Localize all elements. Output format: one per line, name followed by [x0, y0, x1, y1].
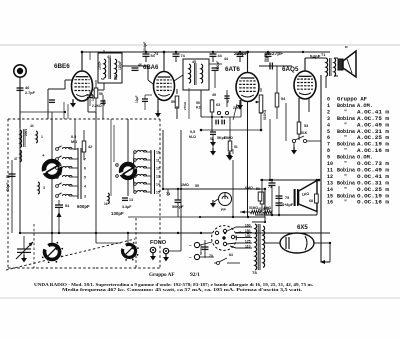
- svg-text:3.3μF: 3.3μF: [122, 205, 132, 209]
- svg-text:O.OM.: O.OM.: [357, 155, 373, 161]
- svg-text:T8: T8: [252, 270, 257, 275]
- svg-text:6AT6: 6AT6: [225, 66, 240, 73]
- svg-text:O.OC.41 m: O.OC.41 m: [357, 174, 389, 180]
- svg-text:14: 14: [156, 183, 160, 187]
- svg-text:51MΩ: 51MΩ: [249, 206, 258, 210]
- svg-text:140: 140: [245, 234, 251, 238]
- svg-text:49: 49: [212, 93, 216, 97]
- svg-text:MΩ: MΩ: [71, 140, 77, 144]
- svg-text:56: 56: [256, 187, 260, 191]
- svg-text:5000pF: 5000pF: [199, 244, 203, 255]
- svg-text:A.OM.: A.OM.: [357, 103, 373, 109]
- svg-text:6: 6: [84, 167, 86, 171]
- svg-text:11: 11: [327, 167, 333, 173]
- svg-text:13: 13: [327, 180, 333, 186]
- svg-text:13: 13: [129, 198, 133, 202]
- svg-text:+: +: [42, 153, 45, 158]
- svg-text:2.2KΩ: 2.2KΩ: [92, 104, 102, 108]
- svg-text:400pF: 400pF: [6, 183, 10, 192]
- svg-text:110: 110: [245, 244, 251, 248]
- svg-text:Bobina: Bobina: [337, 142, 355, 148]
- svg-text:600pF: 600pF: [77, 204, 90, 209]
- svg-text:43: 43: [107, 55, 111, 59]
- svg-text:O.OC.49 m: O.OC.49 m: [357, 167, 389, 173]
- svg-text:6MΩ: 6MΩ: [245, 186, 253, 190]
- svg-text:": ": [344, 187, 347, 193]
- svg-text:54: 54: [114, 77, 118, 81]
- svg-text:400pF: 400pF: [216, 61, 220, 70]
- svg-text:1MΩ: 1MΩ: [181, 183, 189, 187]
- svg-text:Bobina: Bobina: [337, 155, 355, 161]
- svg-text:11: 11: [156, 159, 160, 163]
- svg-text:50: 50: [196, 101, 200, 105]
- svg-text:6: 6: [327, 135, 330, 141]
- svg-text:A.OC.41 m: A.OC.41 m: [357, 109, 389, 115]
- svg-text:50: 50: [226, 99, 230, 103]
- svg-text:9: 9: [327, 155, 330, 161]
- svg-text:53: 53: [304, 124, 308, 128]
- svg-text:A.OC.75 m: A.OC.75 m: [357, 116, 389, 122]
- svg-text:47: 47: [14, 157, 18, 161]
- svg-text:Bobina: Bobina: [337, 167, 355, 173]
- svg-text:10: 10: [327, 161, 333, 167]
- svg-text:Bobina: Bobina: [337, 129, 355, 135]
- svg-text:55: 55: [195, 184, 199, 188]
- svg-text:5: 5: [327, 129, 330, 135]
- svg-text:55: 55: [6, 175, 10, 179]
- svg-text:74: 74: [268, 185, 272, 189]
- svg-text:Bobina: Bobina: [337, 103, 355, 109]
- svg-text:8: 8: [327, 148, 330, 154]
- svg-text:51: 51: [234, 145, 238, 149]
- svg-text:22KΩ: 22KΩ: [233, 106, 242, 110]
- svg-text:27KΩ: 27KΩ: [183, 101, 187, 110]
- svg-text:4: 4: [327, 122, 330, 128]
- svg-text:125: 125: [245, 239, 251, 243]
- svg-text:10: 10: [156, 151, 160, 155]
- svg-text:120pF: 120pF: [118, 61, 122, 70]
- svg-text:160: 160: [245, 223, 251, 227]
- svg-text:130pF: 130pF: [111, 211, 124, 216]
- svg-text:A.OC.31 m: A.OC.31 m: [357, 129, 389, 135]
- svg-text:16: 16: [104, 202, 108, 206]
- svg-text:1: 1: [327, 103, 330, 109]
- svg-text:13: 13: [156, 175, 160, 179]
- svg-text:50KpF: 50KpF: [172, 205, 184, 209]
- svg-text:": ": [344, 122, 347, 128]
- svg-text:50pF: 50pF: [264, 54, 268, 62]
- svg-text:84: 84: [229, 253, 233, 257]
- svg-text:510KΩ: 510KΩ: [263, 109, 267, 120]
- svg-text:A.OC.49 m: A.OC.49 m: [357, 122, 389, 128]
- svg-text:12: 12: [156, 167, 160, 171]
- svg-text:0,5: 0,5: [190, 130, 195, 134]
- svg-text:M-Ω: M-Ω: [189, 135, 196, 139]
- svg-text:46: 46: [25, 86, 29, 90]
- svg-text:3: 3: [84, 195, 86, 199]
- svg-text:7: 7: [327, 142, 330, 148]
- svg-text:53: 53: [101, 77, 105, 81]
- svg-text:6BA6: 6BA6: [143, 65, 159, 71]
- svg-text:": ": [344, 200, 347, 206]
- svg-text:75: 75: [285, 196, 289, 200]
- svg-text:T1: T1: [321, 53, 325, 57]
- svg-text:0.5: 0.5: [71, 135, 76, 139]
- svg-text:6BE6: 6BE6: [54, 63, 70, 70]
- svg-text:6X5: 6X5: [297, 225, 308, 231]
- svg-text:4: 4: [84, 185, 86, 189]
- svg-text:2: 2: [327, 109, 330, 115]
- svg-text:16: 16: [327, 200, 333, 206]
- svg-text:59: 59: [171, 100, 175, 104]
- svg-text:": ": [344, 161, 347, 167]
- svg-text:O.OC.73 m: O.OC.73 m: [357, 161, 389, 167]
- svg-text:Gruppo AF: Gruppo AF: [149, 272, 175, 278]
- svg-text:63: 63: [216, 103, 220, 107]
- svg-text:45: 45: [192, 60, 196, 64]
- svg-text:68: 68: [309, 199, 313, 203]
- svg-text:O.OC.31 m: O.OC.31 m: [357, 180, 389, 186]
- svg-text:O.OC.25 m: O.OC.25 m: [357, 187, 389, 193]
- svg-text:2001: 2001: [24, 129, 28, 136]
- svg-text:44: 44: [224, 57, 228, 61]
- svg-text:Gruppo AF: Gruppo AF: [337, 97, 367, 103]
- svg-text:44: 44: [30, 124, 34, 128]
- svg-text:": ": [344, 135, 347, 141]
- svg-text:": ": [344, 109, 347, 115]
- svg-text:FP: FP: [221, 208, 226, 212]
- svg-text:": ": [344, 174, 347, 180]
- svg-text:A.OC.19 m: A.OC.19 m: [357, 142, 389, 148]
- svg-text:Bobina: Bobina: [337, 116, 355, 122]
- svg-text:14: 14: [327, 187, 333, 193]
- svg-text:104pF: 104pF: [143, 41, 147, 52]
- svg-text:": ": [344, 148, 347, 154]
- svg-text:46: 46: [138, 63, 142, 67]
- svg-text:A.OC.16 m: A.OC.16 m: [357, 148, 389, 154]
- svg-text:6AQ5: 6AQ5: [282, 66, 299, 73]
- svg-text:2.7pF: 2.7pF: [25, 91, 36, 95]
- svg-text:4+8μF: 4+8μF: [282, 203, 294, 207]
- svg-text:58: 58: [99, 92, 103, 96]
- svg-text:15: 15: [156, 191, 160, 195]
- svg-text:0: 0: [327, 97, 330, 103]
- svg-text:1: 1: [41, 135, 43, 139]
- svg-text:A.OC.25 m: A.OC.25 m: [357, 135, 389, 141]
- svg-text:~: ~: [189, 255, 192, 260]
- svg-text:Media frequenza 467 kc. Consum: Media frequenza 467 kc. Consumo: 45 watt…: [62, 287, 302, 292]
- svg-text:15: 15: [327, 193, 333, 199]
- svg-text:10μF: 10μF: [135, 96, 139, 103]
- svg-text:Bobina: Bobina: [337, 180, 355, 186]
- svg-text:KΩ: KΩ: [196, 106, 202, 110]
- svg-text:Bobina: Bobina: [337, 193, 355, 199]
- svg-text:12: 12: [327, 174, 333, 180]
- svg-text:5: 5: [84, 176, 86, 180]
- svg-text:92/1: 92/1: [190, 272, 200, 278]
- svg-text:71: 71: [166, 192, 170, 196]
- svg-text:~: ~: [189, 243, 192, 248]
- svg-text:.5MΩ: .5MΩ: [263, 206, 271, 210]
- svg-text:FONO: FONO: [150, 240, 167, 246]
- svg-text:O.OC.16 m: O.OC.16 m: [357, 200, 389, 206]
- svg-text:3: 3: [43, 186, 45, 190]
- svg-text:42: 42: [88, 145, 92, 149]
- svg-text:51K: 51K: [301, 131, 308, 135]
- svg-text:13MΩ: 13MΩ: [224, 136, 233, 140]
- svg-text:O.OC.19 m: O.OC.19 m: [357, 193, 389, 199]
- svg-text:3: 3: [327, 116, 330, 122]
- svg-text:40pF: 40pF: [102, 99, 106, 106]
- svg-text:120pF: 120pF: [98, 61, 102, 70]
